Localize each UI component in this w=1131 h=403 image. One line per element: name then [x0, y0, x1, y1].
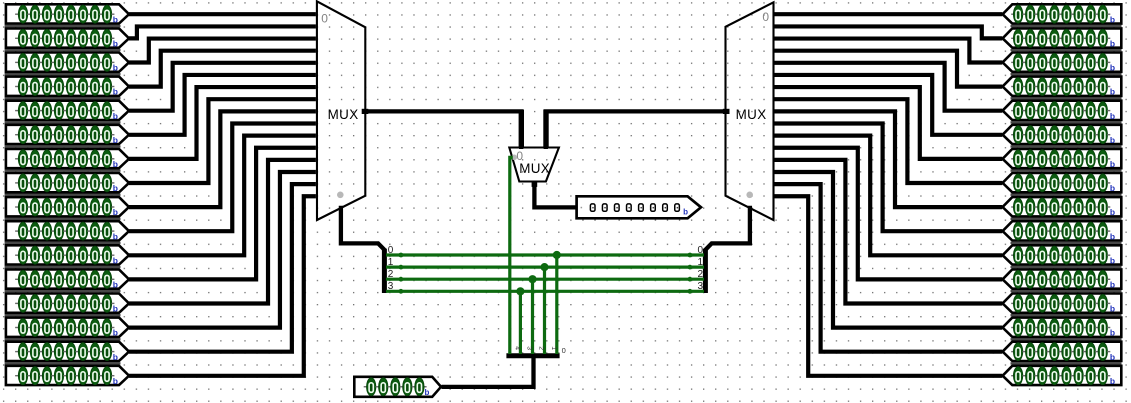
input pin L3 value 00000000: [5, 77, 129, 100]
wire L5 to MUX U1 input 5: [129, 75, 316, 135]
input pin R6 value 00000000: [1003, 149, 1122, 172]
svg-text:0: 0: [321, 11, 328, 25]
svg-text:b: b: [1110, 328, 1115, 338]
wire L8 to MUX U1 input 8: [129, 111, 316, 207]
input pin L1 value 00000000: [5, 28, 129, 51]
svg-text:b: b: [1110, 352, 1115, 362]
input pin L0 value 00000000: [5, 4, 129, 27]
svg-text:b: b: [1110, 87, 1115, 97]
wire L15 to MUX U1 input 15: [129, 196, 316, 376]
node row0 right knob: [688, 253, 693, 258]
wire splitter S3 bit0 to row junction (green vertical): [555, 255, 558, 354]
svg-text:b: b: [1110, 255, 1115, 265]
svg-text:b: b: [1110, 135, 1115, 145]
node row1 right knob: [688, 265, 693, 270]
output pin RESULT value 00000000: [577, 196, 701, 218]
node row2 left knob: [399, 277, 404, 282]
input pin L7 value 00000000: [5, 173, 129, 196]
wire R12 to MUX U2 input 12: [775, 160, 1003, 304]
svg-text:0: 0: [697, 245, 703, 256]
wire L9 to MUX U1 input 9: [129, 123, 316, 231]
svg-text:0: 0: [516, 149, 523, 163]
svg-text:2: 2: [697, 269, 703, 280]
wire R7 to MUX U2 input 7: [775, 99, 1003, 183]
svg-text:MUX: MUX: [328, 107, 359, 122]
input pin L8 value 00000000: [5, 197, 129, 220]
svg-text:0: 0: [762, 10, 769, 24]
select bus bit 2 wire (green row 2): [386, 278, 704, 281]
input pin R7 value 00000000: [1003, 173, 1122, 196]
node row1 left knob: [399, 265, 404, 270]
select bus bit 3 wire (green row 3): [386, 290, 704, 293]
input pin R14 value 00000000: [1003, 342, 1122, 365]
input pin R11 value 00000000: [1003, 269, 1122, 292]
wire L4 to MUX U1 input 4: [129, 63, 316, 111]
svg-text:b: b: [113, 231, 118, 241]
svg-text:b: b: [113, 39, 118, 49]
wire R1 to MUX U2 input 1: [775, 26, 1003, 38]
input pin R15 value 00000000: [1003, 366, 1122, 386]
svg-text:1: 1: [697, 257, 703, 268]
input pin L5 value 00000000: [5, 125, 129, 148]
wire L11 to MUX U1 input 11: [129, 148, 316, 280]
wire R14 to MUX U2 input 14: [775, 184, 1003, 352]
wire R4 to MUX U2 input 4: [775, 63, 1003, 111]
splitter S3 spine: [506, 353, 559, 358]
splitter S1 spine: [382, 249, 387, 293]
wire select-pin to splitter S3: [442, 356, 534, 387]
wire U1 output to U3 input 0: [365, 111, 521, 149]
node row2 right knob: [688, 277, 693, 282]
input pin SELECT value 00000: [354, 377, 441, 397]
svg-text:b: b: [113, 207, 118, 217]
enable dot of U2: [746, 192, 753, 199]
wire L6 to MUX U1 input 6: [129, 87, 316, 159]
input pin L11 value 00000000: [5, 269, 129, 292]
wire R2 to MUX U2 input 2: [775, 39, 1003, 63]
input pin R12 value 00000000: [1003, 294, 1122, 317]
svg-text:b: b: [113, 135, 118, 145]
wire U2 output to U3 input 1: [546, 111, 726, 149]
input pin R5 value 00000000: [1003, 125, 1122, 148]
wire R13 to MUX U2 input 13: [775, 172, 1003, 328]
input pin R4 value 00000000: [1003, 101, 1122, 124]
input pin R0 value 00000000: [1003, 4, 1122, 27]
svg-text:b: b: [1110, 304, 1115, 314]
svg-text:b: b: [1110, 207, 1115, 217]
svg-text:2: 2: [388, 269, 394, 280]
svg-text:b: b: [113, 304, 118, 314]
junction dot bit0: [553, 251, 561, 259]
output knob of U3: [532, 182, 538, 187]
svg-text:b: b: [113, 159, 118, 169]
svg-text:b: b: [113, 111, 118, 121]
svg-text:b: b: [1110, 63, 1115, 73]
wire R11 to MUX U2 input 11: [775, 148, 1003, 280]
svg-text:b: b: [113, 280, 118, 290]
svg-text:b: b: [113, 87, 118, 97]
svg-text:b: b: [1110, 376, 1115, 386]
svg-text:b: b: [1110, 111, 1115, 121]
wire L0 to MUX U1 input 0: [129, 12, 316, 16]
svg-text:b: b: [683, 207, 688, 216]
input stub U3 left: [519, 110, 524, 149]
input pin L10 value 00000000: [5, 245, 129, 268]
wire L2 to MUX U1 input 2: [129, 39, 316, 63]
svg-text:b: b: [1110, 14, 1115, 24]
wire splitter S3 bit3 to row3 junction (green vertical): [519, 291, 522, 354]
svg-text:b: b: [113, 352, 118, 362]
wire L12 to MUX U1 input 12: [129, 160, 316, 304]
svg-text:b: b: [1110, 39, 1115, 49]
svg-text:0: 0: [388, 245, 394, 256]
input pin R8 value 00000000: [1003, 197, 1122, 220]
wire splitter S3 bit4 to U3 select (green): [510, 157, 513, 354]
input pin R1 value 00000000: [1003, 28, 1122, 51]
wire L13 to MUX U1 input 13: [129, 172, 316, 328]
wire L3 to MUX U1 input 3: [129, 51, 316, 87]
wire R0 to MUX U2 input 0: [775, 12, 1003, 16]
junction dot bit3: [516, 287, 524, 295]
select dot of U3: [512, 155, 518, 161]
input pin R9 value 00000000: [1003, 221, 1122, 244]
input stub U3 right: [543, 110, 548, 149]
input pin L15 value 00000000: [6, 366, 129, 386]
splitter S2 spine: [703, 249, 708, 293]
input pin L13 value 00000000: [5, 318, 129, 341]
svg-text:b: b: [1110, 231, 1115, 241]
wire U1 select to splitter S1: [341, 206, 385, 250]
wire L7 to MUX U1 input 7: [129, 99, 316, 183]
input pin L4 value 00000000: [5, 101, 129, 124]
wire R10 to MUX U2 input 10: [775, 136, 1003, 256]
multiplexer U3 (middle 2:1 MUX): [509, 148, 559, 182]
input pin R13 value 00000000: [1003, 318, 1122, 341]
svg-text:1: 1: [388, 257, 394, 268]
svg-text:b: b: [425, 388, 430, 397]
node row3 right knob: [688, 289, 693, 294]
svg-text:b: b: [113, 183, 118, 193]
svg-text:b: b: [113, 255, 118, 265]
wire splitter S3 bit1 to row1 junction (green vertical): [543, 267, 546, 354]
junction dot bit2: [528, 275, 536, 283]
input pin L12 value 00000000: [5, 294, 129, 317]
svg-text:2: 2: [538, 346, 545, 350]
wire R3 to MUX U2 input 3: [775, 51, 1003, 87]
wire R9 to MUX U2 input 9: [775, 123, 1003, 231]
junction dot bit1: [540, 263, 548, 271]
svg-text:3: 3: [697, 281, 703, 292]
wire R8 to MUX U2 input 8: [775, 111, 1003, 207]
output knob of U1: [362, 109, 369, 114]
svg-text:b: b: [113, 328, 118, 338]
svg-text:4: 4: [513, 346, 520, 350]
wire R6 to MUX U2 input 6: [775, 87, 1003, 159]
input pin L2 value 00000000: [5, 53, 129, 76]
svg-text:b: b: [113, 63, 118, 73]
output knob of U2: [723, 109, 730, 114]
input pin R10 value 00000000: [1003, 245, 1122, 268]
svg-text:b: b: [113, 376, 118, 386]
input pin R2 value 00000000: [1003, 53, 1122, 76]
wire L10 to MUX U1 input 10: [129, 136, 316, 256]
svg-text:b: b: [1110, 159, 1115, 169]
multiplexer U2 (right 16:1 MUX): [726, 2, 774, 220]
svg-text:0: 0: [562, 346, 566, 355]
select bus bit 0 wire (green row 0): [386, 253, 704, 256]
svg-text:MUX: MUX: [736, 107, 767, 122]
svg-text:b: b: [113, 14, 118, 24]
wire U3 output to result pin: [534, 183, 577, 207]
wire R5 to MUX U2 input 5: [775, 75, 1003, 135]
wire L1 to MUX U1 input 1: [129, 26, 316, 38]
wire R15 to MUX U2 input 15: [775, 196, 1003, 376]
input pin L6 value 00000000: [5, 149, 129, 172]
input pin L9 value 00000000: [5, 221, 129, 244]
enable dot of U1: [337, 192, 344, 199]
input pin R3 value 00000000: [1003, 77, 1122, 100]
wire L14 to MUX U1 input 14: [129, 184, 316, 352]
wire U2 select to splitter S2: [705, 206, 750, 250]
svg-text:3: 3: [526, 346, 533, 350]
node row3 left knob: [399, 289, 404, 294]
op-amp-shaped multiplexer U1 (left 16:1 MUX): [317, 1, 365, 220]
select bus bit 1 wire (green row 1): [386, 266, 704, 269]
svg-text:b: b: [1110, 183, 1115, 193]
svg-text:1: 1: [550, 346, 557, 350]
wire splitter S3 bit2 to row2 junction (green vertical): [531, 279, 534, 354]
node row0 left knob: [399, 253, 404, 258]
input pin L14 value 00000000: [5, 342, 129, 365]
svg-text:b: b: [1110, 280, 1115, 290]
svg-text:3: 3: [388, 281, 394, 292]
svg-text:MUX: MUX: [519, 161, 550, 176]
